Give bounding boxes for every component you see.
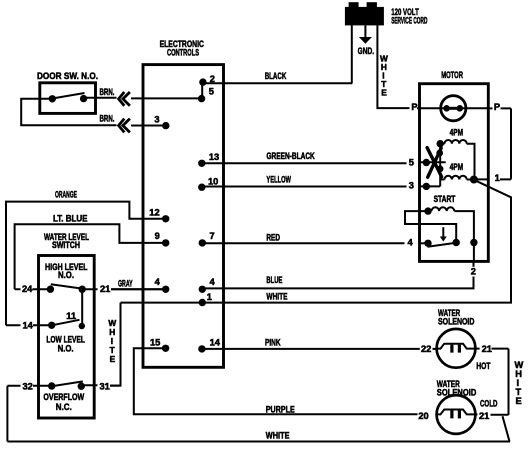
fan vertical link bbox=[439, 144, 441, 187]
svg-text:GND.: GND. bbox=[358, 46, 375, 56]
wire 31 bbox=[81, 384, 121, 386]
svg-text:5: 5 bbox=[409, 158, 414, 168]
junction node bbox=[470, 176, 478, 184]
svg-text:START: START bbox=[434, 194, 456, 204]
high level contacts bbox=[47, 286, 54, 293]
wire P right to vertical bbox=[488, 107, 511, 109]
svg-text:2: 2 bbox=[471, 267, 476, 277]
svg-text:P: P bbox=[411, 102, 417, 112]
svg-text:PURPLE: PURPLE bbox=[266, 405, 295, 415]
wire purple path from 15 bbox=[134, 348, 418, 414]
svg-text:BLUE: BLUE bbox=[266, 275, 282, 285]
wire white right vertical solenoids bbox=[508, 349, 510, 415]
svg-text:E: E bbox=[381, 88, 387, 98]
connector chevrons bottom bbox=[119, 119, 130, 133]
wire 2 to motor bbox=[473, 261, 475, 266]
wire door left loop bbox=[21, 99, 116, 126]
svg-text:1: 1 bbox=[495, 173, 500, 183]
svg-text:21: 21 bbox=[479, 411, 489, 421]
svg-text:15: 15 bbox=[150, 338, 160, 348]
ground prong bbox=[364, 25, 366, 37]
label OVERFLOW N.C. bbox=[43, 392, 84, 412]
wire plug left prong to BLACK bbox=[351, 25, 353, 83]
svg-text:WHITE: WHITE bbox=[266, 431, 290, 441]
terminal 4 left bbox=[162, 286, 169, 293]
motor terminal 5 bbox=[423, 159, 430, 166]
svg-text:N.O.: N.O. bbox=[58, 344, 74, 354]
wire GRAY bbox=[111, 288, 166, 290]
label ELECTRONIC CONTROLS bbox=[160, 39, 205, 57]
svg-text:4PM: 4PM bbox=[450, 162, 464, 172]
wire cold right bbox=[475, 413, 508, 415]
start switch actuator arrow bbox=[442, 227, 444, 236]
wire terminal3 to brn connector bbox=[131, 125, 166, 127]
wire BLUE bbox=[202, 277, 473, 289]
door switch contact right bbox=[80, 95, 87, 102]
wire WHITE horizontal (terminal1) bbox=[121, 180, 512, 303]
wire protector line bbox=[417, 107, 488, 109]
svg-text:ORANGE: ORANGE bbox=[55, 190, 77, 200]
ground arrow bbox=[359, 37, 372, 44]
svg-text:21: 21 bbox=[100, 284, 110, 294]
label WATER LEVEL SWITCH bbox=[44, 232, 89, 250]
label 120 VOLT SERVICE CORD bbox=[391, 7, 427, 26]
svg-text:2: 2 bbox=[210, 74, 215, 84]
svg-text:HOT: HOT bbox=[476, 361, 490, 371]
svg-text:BLACK: BLACK bbox=[265, 71, 287, 81]
svg-text:PINK: PINK bbox=[265, 337, 281, 347]
wire PINK bbox=[202, 348, 420, 350]
water solenoid hot bbox=[437, 329, 476, 368]
svg-text:20: 20 bbox=[418, 411, 428, 421]
svg-text:SERVICE CORD: SERVICE CORD bbox=[391, 15, 427, 25]
svg-text:11: 11 bbox=[66, 311, 76, 321]
svg-text:BRN.: BRN. bbox=[100, 113, 115, 123]
wire motor5 to fan bbox=[420, 161, 446, 163]
electronic controls box bbox=[143, 65, 224, 368]
svg-text:22: 22 bbox=[421, 344, 431, 354]
svg-text:12: 12 bbox=[149, 208, 159, 218]
wire GREEN-BLACK bbox=[202, 162, 407, 164]
protector contacts bbox=[443, 105, 450, 112]
label LOW LEVEL N.O. bbox=[46, 335, 85, 354]
high level arm bbox=[51, 284, 82, 288]
svg-text:SOLENOID: SOLENOID bbox=[438, 317, 475, 327]
svg-text:BRN.: BRN. bbox=[100, 87, 115, 97]
svg-text:5: 5 bbox=[209, 87, 214, 97]
svg-text:P: P bbox=[494, 102, 500, 112]
water solenoid cold bbox=[437, 395, 476, 434]
water level switch box bbox=[39, 256, 95, 419]
svg-text:4: 4 bbox=[408, 237, 414, 247]
connector chevrons top bbox=[119, 92, 130, 106]
label WATER SOLENOID cold bbox=[437, 379, 477, 397]
svg-text:E: E bbox=[110, 354, 116, 364]
svg-text:31: 31 bbox=[100, 381, 110, 391]
svg-text:4: 4 bbox=[210, 277, 216, 287]
label HIGH LEVEL N.O. bbox=[45, 262, 88, 280]
terminal 7 bbox=[199, 239, 206, 246]
svg-text:13: 13 bbox=[209, 152, 219, 162]
svg-text:YELLOW: YELLOW bbox=[266, 175, 291, 185]
svg-text:GRAY: GRAY bbox=[118, 279, 133, 289]
wire 21 to gray bbox=[82, 288, 166, 290]
wire right vertical P to 1 bbox=[510, 108, 512, 179]
svg-text:E: E bbox=[516, 396, 522, 406]
terminal 2 bbox=[199, 78, 206, 85]
motor box bbox=[420, 84, 489, 262]
wire red inside bbox=[420, 242, 429, 244]
svg-text:14: 14 bbox=[210, 338, 221, 348]
terminal 1 bbox=[199, 299, 206, 306]
wire link 2-5 bbox=[201, 82, 203, 99]
svg-text:7: 7 bbox=[210, 231, 215, 241]
protector circle bbox=[441, 96, 466, 121]
wire BLACK horizontal bbox=[203, 82, 352, 84]
terminal 3 bbox=[162, 122, 169, 129]
wire pink gap bbox=[433, 348, 437, 350]
label WATER SOLENOID hot bbox=[438, 308, 475, 327]
svg-text:1: 1 bbox=[207, 292, 212, 302]
terminal 10 bbox=[198, 184, 205, 191]
terminal 5 bbox=[198, 95, 205, 102]
svg-text:14: 14 bbox=[23, 321, 34, 331]
terminal 9 bbox=[162, 239, 169, 246]
svg-text:OVERFLOW: OVERFLOW bbox=[43, 392, 84, 402]
svg-text:32: 32 bbox=[23, 381, 33, 391]
svg-text:3: 3 bbox=[154, 114, 159, 124]
wire start to 2 bbox=[473, 243, 475, 262]
label WHITE vertical right bbox=[515, 360, 524, 406]
wire start jog bbox=[405, 211, 456, 242]
terminal 14 bbox=[198, 345, 205, 352]
terminal 12 bbox=[162, 215, 169, 222]
wire white down to overflow 31 bbox=[110, 303, 121, 386]
svg-text:10: 10 bbox=[208, 177, 218, 187]
terminal 4 right bbox=[199, 286, 206, 293]
svg-text:COLD: COLD bbox=[480, 399, 498, 409]
wire LT BLUE path bbox=[15, 224, 166, 289]
wire 32 down to bottom white bbox=[6, 386, 8, 442]
terminal 13 bbox=[198, 160, 205, 167]
wire RED bbox=[202, 242, 404, 244]
low level arm bbox=[52, 320, 80, 326]
wire YELLOW bbox=[202, 186, 407, 188]
centrifugal switch fan bbox=[427, 148, 441, 178]
svg-text:SOLENOID: SOLENOID bbox=[437, 387, 477, 397]
svg-text:24: 24 bbox=[22, 284, 33, 294]
wire 11 vertical bbox=[81, 289, 83, 326]
wire motor3 bbox=[420, 185, 441, 187]
svg-text:9: 9 bbox=[155, 231, 160, 241]
svg-text:21: 21 bbox=[482, 344, 492, 354]
wire bottom WHITE bbox=[7, 441, 510, 443]
svg-text:GREEN-BLACK: GREEN-BLACK bbox=[266, 151, 315, 161]
main winding coil upper bbox=[437, 140, 444, 147]
wire ORANGE path bbox=[6, 202, 166, 326]
wire plug right prong (white) bbox=[377, 25, 409, 108]
label WHITE vertical (left) bbox=[108, 318, 116, 364]
svg-text:SWITCH: SWITCH bbox=[52, 240, 80, 250]
label WHITE vertical (plug) bbox=[380, 54, 388, 98]
terminal 15 bbox=[162, 345, 169, 352]
door switch box bbox=[40, 83, 96, 114]
solenoid hot coil bbox=[437, 344, 476, 349]
plug 120 volt service cord bbox=[345, 2, 384, 25]
wire diagonal to bottom white bbox=[503, 416, 510, 441]
wire junction to terminal 1 bbox=[474, 178, 511, 180]
start switch contacts bbox=[424, 240, 431, 247]
wire 14 bbox=[6, 324, 52, 326]
wire hot right bbox=[475, 348, 508, 350]
svg-text:RED: RED bbox=[266, 232, 280, 242]
start switch arm bbox=[428, 243, 455, 247]
main winding coil lower bbox=[440, 179, 444, 181]
svg-text:LT. BLUE: LT. BLUE bbox=[53, 214, 88, 224]
svg-text:N.O.: N.O. bbox=[58, 270, 74, 280]
svg-text:DOOR SW. N.O.: DOOR SW. N.O. bbox=[37, 71, 98, 81]
motor terminal 3 bbox=[423, 183, 430, 190]
svg-text:WHITE: WHITE bbox=[266, 291, 287, 301]
solenoid cold coil bbox=[437, 410, 476, 415]
svg-text:4PM: 4PM bbox=[450, 128, 464, 138]
svg-text:4: 4 bbox=[155, 277, 161, 287]
svg-text:N.C.: N.C. bbox=[56, 402, 72, 412]
svg-text:3: 3 bbox=[409, 181, 414, 191]
overflow arm bbox=[52, 381, 83, 386]
wire 32 bbox=[7, 385, 51, 387]
wire door right bbox=[84, 97, 117, 99]
start winding coil bbox=[424, 207, 431, 214]
overflow contacts bbox=[48, 382, 55, 389]
low level contacts bbox=[48, 322, 55, 329]
svg-text:MOTOR: MOTOR bbox=[441, 70, 463, 80]
wire terminal5 to brn connector bbox=[131, 97, 202, 99]
wire 24 bbox=[15, 288, 51, 290]
svg-text:CONTROLS: CONTROLS bbox=[167, 47, 199, 57]
door switch contact left bbox=[49, 95, 56, 102]
door switch arm bbox=[52, 93, 84, 99]
